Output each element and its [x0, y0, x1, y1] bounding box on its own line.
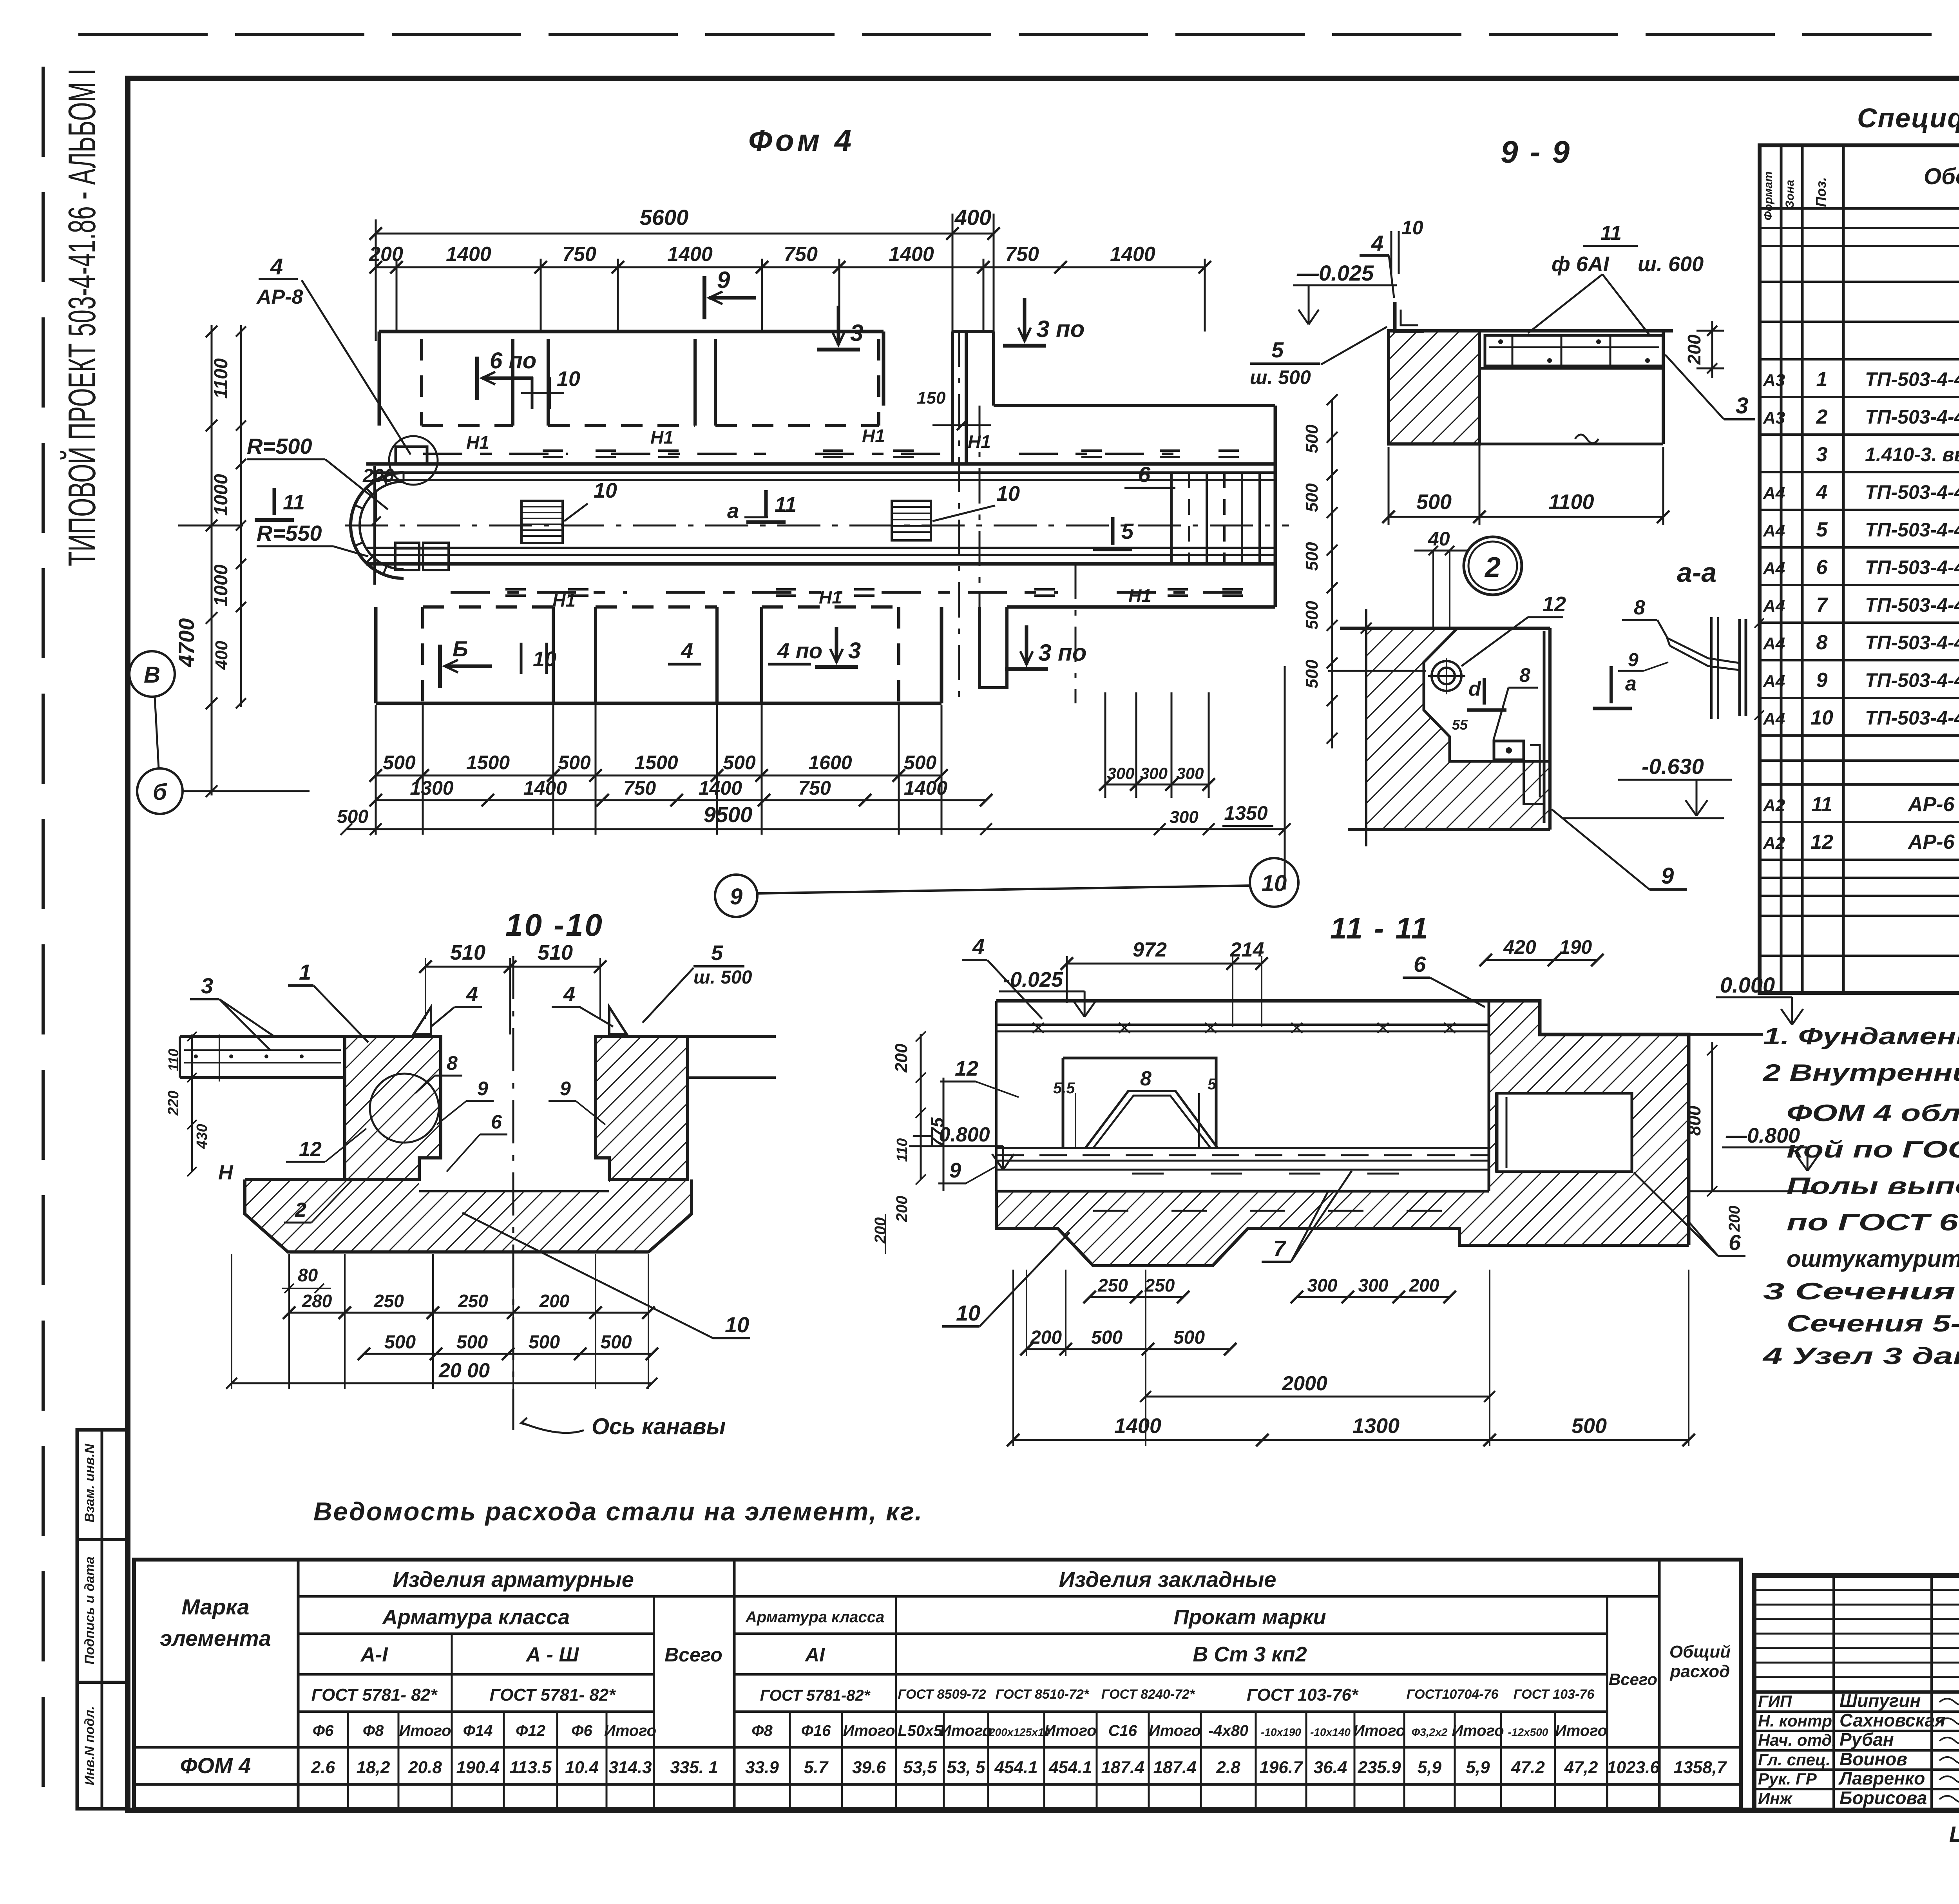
svg-text:Итого: Итого — [1452, 1722, 1504, 1739]
plan top dim 5600/400 — [376, 233, 994, 235]
svg-text:ТП-503-4-41.86: ТП-503-4-41.86 — [1865, 632, 1959, 654]
svg-text:Н1: Н1 — [1128, 585, 1152, 606]
11-11 bottom dims — [1090, 1296, 1183, 1298]
svg-text:10.4: 10.4 — [565, 1758, 599, 1777]
svg-text:ТП-503-4-41.86: ТП-503-4-41.86 — [1865, 556, 1959, 578]
svg-text:—0.800: —0.800 — [1725, 1124, 1800, 1147]
outer sheet dashed border — [78, 33, 1959, 36]
svg-text:187.4: 187.4 — [1101, 1758, 1144, 1777]
svg-text:5,9: 5,9 — [1418, 1758, 1442, 1777]
riffle end region 6 — [1170, 473, 1173, 564]
svg-text:7: 7 — [1816, 594, 1829, 616]
svg-text:R=550: R=550 — [257, 521, 322, 545]
svg-text:1400: 1400 — [889, 243, 934, 266]
svg-text:3 по: 3 по — [1038, 639, 1086, 666]
svg-text:Н1: Н1 — [819, 587, 842, 607]
svg-text:500: 500 — [1416, 490, 1452, 514]
svg-text:1: 1 — [1816, 368, 1828, 391]
svg-text:ГИП: ГИП — [1758, 1692, 1792, 1710]
svg-text:А4: А4 — [1763, 596, 1785, 616]
svg-text:Итого: Итого — [843, 1722, 895, 1739]
svg-text:1100: 1100 — [211, 358, 232, 399]
uzel 2 circle — [1464, 537, 1522, 595]
svg-text:2.6: 2.6 — [311, 1758, 335, 1777]
svg-text:1358,7: 1358,7 — [1674, 1758, 1727, 1777]
svg-text:190.4: 190.4 — [456, 1758, 499, 1777]
svg-text:200: 200 — [872, 1217, 889, 1244]
svg-text:12: 12 — [1811, 831, 1833, 853]
svg-text:С16: С16 — [1108, 1722, 1137, 1739]
svg-text:500: 500 — [904, 752, 937, 774]
svg-text:оштукатурить.: оштукатурить. — [1787, 1246, 1959, 1272]
svg-text:9: 9 — [477, 1078, 488, 1100]
svg-text:300: 300 — [1307, 1275, 1338, 1295]
svg-text:500: 500 — [600, 1332, 632, 1353]
left stamp boxes — [77, 1430, 128, 1809]
svg-text:4: 4 — [466, 982, 478, 1006]
svg-text:80: 80 — [298, 1265, 318, 1285]
svg-text:1400: 1400 — [1114, 1414, 1161, 1438]
svg-text:ТП-503-4-41.86: ТП-503-4-41.86 — [1865, 707, 1959, 729]
svg-text:3: 3 — [850, 320, 863, 346]
500 ladder — [1331, 400, 1333, 748]
svg-text:10: 10 — [594, 479, 617, 502]
svg-text:10: 10 — [996, 482, 1020, 505]
svg-text:Всего: Всего — [664, 1644, 722, 1666]
svg-text:200: 200 — [539, 1291, 570, 1311]
11-11 body — [996, 999, 1489, 1003]
svg-text:2.8: 2.8 — [1216, 1758, 1240, 1777]
svg-text:2: 2 — [295, 1199, 306, 1221]
title block main — [1754, 1576, 1959, 1810]
uzel 2 detail — [1340, 627, 1550, 630]
svg-text:200: 200 — [369, 243, 403, 266]
svg-text:196.7: 196.7 — [1259, 1758, 1304, 1777]
svg-text:972: 972 — [1133, 938, 1167, 961]
svg-text:10: 10 — [1262, 871, 1287, 896]
svg-text:9: 9 — [717, 267, 730, 293]
svg-text:10 -10: 10 -10 — [505, 908, 604, 942]
svg-text:Изделия закладные: Изделия закладные — [1059, 1567, 1276, 1592]
svg-text:ТП-503-4-41.86: ТП-503-4-41.86 — [1865, 519, 1959, 541]
vertical dim chain left — [240, 325, 242, 707]
svg-text:454.1: 454.1 — [994, 1758, 1037, 1777]
svg-text:А3: А3 — [1763, 408, 1785, 428]
svg-text:А4: А4 — [1763, 484, 1785, 503]
svg-text:5: 5 — [711, 941, 723, 965]
10-10 right wall — [596, 1036, 688, 1179]
svg-text:5600: 5600 — [640, 205, 689, 230]
svg-text:500: 500 — [1302, 424, 1322, 453]
svg-text:10: 10 — [1401, 217, 1423, 239]
vertical dim 4700 — [211, 325, 213, 795]
svg-text:кой по ГОСТ 6141-82: кой по ГОСТ 6141-82 на цементном раствор… — [1787, 1136, 1959, 1163]
svg-text:5: 5 — [1271, 337, 1284, 362]
svg-text:Шипугин: Шипугин — [1840, 1690, 1921, 1711]
svg-text:190: 190 — [1559, 936, 1592, 958]
svg-text:5.7: 5.7 — [804, 1758, 829, 1777]
svg-text:ГОСТ10704-76: ГОСТ10704-76 — [1407, 1687, 1499, 1702]
svg-text:510: 510 — [450, 941, 485, 964]
svg-text:Итого: Итого — [604, 1722, 656, 1739]
svg-text:200: 200 — [1726, 1206, 1743, 1232]
10-10 callout circle — [370, 1074, 439, 1143]
svg-text:4: 4 — [681, 638, 693, 663]
svg-text:200: 200 — [362, 466, 394, 486]
svg-text:Нач. отд.: Нач. отд. — [1758, 1731, 1836, 1749]
svg-text:1023.6: 1023.6 — [1607, 1758, 1660, 1777]
svg-text:1400: 1400 — [904, 777, 947, 799]
svg-text:ш. 500: ш. 500 — [693, 967, 752, 988]
svg-text:39.6: 39.6 — [852, 1758, 886, 1777]
svg-text:Итого: Итого — [1555, 1722, 1607, 1739]
svg-text:150: 150 — [917, 388, 946, 408]
left rounded end arcs — [351, 473, 404, 578]
top right stub 400 — [952, 332, 1275, 464]
svg-text:6: 6 — [491, 1111, 502, 1133]
svg-text:Спецификация элементов: Спецификация элементов — [1857, 103, 1959, 133]
svg-text:9500: 9500 — [704, 802, 753, 827]
svg-text:6: 6 — [1816, 556, 1828, 579]
svg-text:ТП-503-4-41.86: ТП-503-4-41.86 — [1865, 669, 1959, 691]
svg-text:Прокат марки: Прокат марки — [1173, 1605, 1326, 1629]
svg-text:500: 500 — [1302, 542, 1322, 571]
svg-text:0.000: 0.000 — [1720, 973, 1775, 997]
svg-text:11 - 11: 11 - 11 — [1330, 912, 1429, 945]
svg-text:500: 500 — [456, 1332, 488, 1353]
svg-text:1.410-3. вып.1: 1.410-3. вып.1 — [1865, 444, 1959, 466]
svg-text:Итого: Итого — [1353, 1722, 1405, 1739]
svg-text:В: В — [144, 662, 160, 688]
svg-text:Рубан: Рубан — [1840, 1729, 1894, 1750]
svg-text:Полы выполнить из к: Полы выполнить из керамической плитки, — [1787, 1173, 1959, 1199]
svg-text:314.3: 314.3 — [608, 1758, 652, 1777]
svg-text:250: 250 — [458, 1291, 488, 1311]
svg-text:АI: АI — [804, 1644, 825, 1666]
svg-text:420: 420 — [1503, 936, 1536, 958]
svg-text:20 00: 20 00 — [438, 1359, 490, 1382]
svg-text:ТП-503-4-41.86: ТП-503-4-41.86 — [1865, 481, 1959, 503]
svg-text:500: 500 — [384, 1332, 416, 1353]
10-10 left slab — [180, 1035, 345, 1038]
svg-text:250: 250 — [373, 1291, 404, 1311]
svg-text:510: 510 — [538, 941, 573, 964]
svg-text:ТП-503-4-41.86: ТП-503-4-41.86 — [1865, 368, 1959, 390]
rebar marks row 11-11 — [1093, 1210, 1128, 1212]
svg-text:— 0.800: — 0.800 — [913, 1123, 990, 1146]
svg-text:1000: 1000 — [211, 564, 232, 606]
svg-text:3: 3 — [201, 973, 213, 998]
svg-text:Подпись и дата: Подпись и дата — [82, 1556, 97, 1665]
svg-text:9: 9 — [1628, 650, 1639, 670]
svg-text:11: 11 — [1601, 222, 1622, 245]
channel outer/walls — [366, 462, 1275, 466]
svg-text:20.8: 20.8 — [408, 1758, 442, 1777]
svg-text:1350: 1350 — [1224, 802, 1267, 824]
svg-text:d: d — [1468, 678, 1481, 700]
svg-text:7: 7 — [1273, 1236, 1287, 1261]
svg-text:454.1: 454.1 — [1048, 1758, 1092, 1777]
10-10 top dims — [425, 966, 600, 968]
svg-text:А2: А2 — [1763, 796, 1785, 815]
svg-text:АР-8: АР-8 — [256, 286, 303, 308]
svg-text:500: 500 — [1302, 601, 1322, 630]
10-10 base slab — [245, 1179, 692, 1252]
embedded plate marks — [543, 449, 563, 452]
svg-text:5: 5 — [1121, 519, 1134, 543]
11-11 top dims — [1067, 963, 1262, 965]
svg-text:а-а: а-а — [1677, 557, 1716, 588]
svg-text:300: 300 — [1107, 764, 1134, 783]
svg-text:1400: 1400 — [446, 243, 491, 266]
svg-text:3: 3 — [1736, 393, 1748, 418]
svg-text:ГОСТ 8509-72: ГОСТ 8509-72 — [898, 1687, 986, 1702]
lower block — [376, 702, 941, 705]
svg-text:ГОСТ 103-76*: ГОСТ 103-76* — [1247, 1685, 1359, 1705]
svg-text:Ось канавы: Ось канавы — [592, 1414, 726, 1439]
upper dashed band — [420, 339, 423, 426]
svg-text:ТИПОВОЙ ПРОЕКТ 503-4-41.86 -: ТИПОВОЙ ПРОЕКТ 503-4-41.86 - АЛЬБОМ I — [60, 69, 103, 566]
svg-text:Ф6: Ф6 — [313, 1722, 334, 1739]
svg-text:Обозначение: Обозначение — [1924, 164, 1959, 189]
hatch pad left on axis — [521, 501, 563, 543]
svg-text:300: 300 — [1176, 764, 1204, 783]
svg-text:Арматура класса: Арматура класса — [382, 1605, 570, 1629]
spec table grid — [1760, 145, 1959, 993]
svg-text:Общий: Общий — [1669, 1642, 1731, 1661]
svg-text:500: 500 — [1302, 483, 1322, 512]
svg-text:9: 9 — [560, 1078, 571, 1100]
svg-text:500: 500 — [1572, 1414, 1607, 1438]
svg-text:Фом 4: Фом 4 — [748, 123, 855, 158]
svg-text:Ведомость расхода стали: Ведомость расхода стали на элемент, кг. — [313, 1497, 923, 1526]
10-10 left wall — [345, 1036, 441, 1179]
svg-text:1500: 1500 — [466, 752, 510, 774]
svg-text:Итого: Итого — [1149, 1722, 1201, 1739]
svg-text:Борисова: Борисова — [1840, 1788, 1927, 1808]
svg-text:Воинов: Воинов — [1840, 1749, 1907, 1769]
svg-text:Инж: Инж — [1758, 1789, 1793, 1808]
cut 11 left — [273, 488, 276, 515]
svg-text:Поз.: Поз. — [1813, 177, 1829, 207]
plan top dim chain — [376, 266, 1205, 268]
cut 5 right — [1111, 517, 1115, 545]
detail callout circle AP-8 — [389, 436, 438, 485]
svg-text:элемента: элемента — [160, 1626, 271, 1650]
svg-text:Ф3,2х2: Ф3,2х2 — [1412, 1726, 1448, 1738]
svg-text:Всего: Всего — [1609, 1670, 1657, 1688]
H1 dashed row upper — [423, 453, 568, 455]
axis line into detail — [1328, 670, 1426, 672]
svg-text:2: 2 — [1816, 406, 1828, 428]
svg-text:47,2: 47,2 — [1564, 1758, 1598, 1777]
svg-text:R=500: R=500 — [247, 434, 312, 458]
11-11 mid lines — [996, 1147, 1489, 1149]
svg-text:3 Сечения 3-3 ÷ 4-4: 3 Сечения 3-3 ÷ 4-4 даны на листе АР-4. — [1763, 1278, 1959, 1304]
svg-text:—0.025: —0.025 — [1296, 261, 1374, 285]
svg-text:А4: А4 — [1763, 634, 1785, 653]
svg-text:335. 1: 335. 1 — [670, 1758, 718, 1777]
svg-text:280: 280 — [302, 1291, 332, 1311]
svg-text:750: 750 — [1005, 243, 1039, 266]
9-9 slab — [1389, 329, 1673, 333]
svg-text:11: 11 — [775, 493, 797, 516]
lower H1 dashed row — [451, 591, 627, 594]
svg-text:430: 430 — [194, 1124, 210, 1149]
svg-text:8: 8 — [447, 1052, 458, 1074]
svg-text:Ф8: Ф8 — [751, 1722, 773, 1739]
svg-text:1300: 1300 — [1352, 1414, 1400, 1438]
svg-text:9: 9 — [1816, 669, 1828, 692]
svg-text:235.9: 235.9 — [1357, 1758, 1401, 1777]
svg-text:12: 12 — [299, 1138, 322, 1161]
svg-text:3: 3 — [1816, 443, 1828, 466]
svg-text:-4х80: -4х80 — [1208, 1722, 1248, 1739]
svg-text:2 Внутренние поверхност: 2 Внутренние поверхности стен фундамента — [1763, 1060, 1959, 1086]
svg-text:1: 1 — [299, 960, 311, 984]
svg-text:-10х190: -10х190 — [1261, 1726, 1301, 1738]
svg-text:53,5: 53,5 — [903, 1758, 937, 1777]
svg-text:500: 500 — [337, 806, 368, 827]
svg-text:4: 4 — [1816, 481, 1828, 504]
10-10 gussets — [413, 1007, 431, 1034]
svg-text:а: а — [1625, 672, 1637, 695]
svg-text:ГОСТ 5781-82*: ГОСТ 5781-82* — [760, 1687, 871, 1704]
lower cut labels — [445, 665, 492, 668]
svg-text:8: 8 — [1634, 596, 1645, 619]
svg-text:110: 110 — [165, 1049, 181, 1071]
hatch pad right on axis — [892, 501, 931, 540]
svg-text:Итого: Итого — [1044, 1722, 1096, 1739]
svg-text:6: 6 — [1729, 1230, 1741, 1255]
svg-text:5: 5 — [1816, 518, 1828, 541]
svg-text:800: 800 — [1684, 1105, 1704, 1136]
svg-text:Ф8: Ф8 — [363, 1722, 384, 1739]
section cut marks upper — [482, 377, 533, 380]
svg-text:Н1: Н1 — [552, 590, 576, 611]
svg-text:А3: А3 — [1763, 371, 1785, 390]
9-9 corner angle — [1395, 302, 1424, 331]
svg-text:Н1: Н1 — [466, 432, 489, 453]
svg-text:1400: 1400 — [523, 777, 567, 799]
svg-text:750: 750 — [784, 243, 818, 266]
svg-text:В Ст 3 кп2: В Ст 3 кп2 — [1193, 1643, 1307, 1666]
svg-text:Н1: Н1 — [650, 427, 674, 447]
svg-text:ФОМ 4 облицевать бел: ФОМ 4 облицевать белой керамической плит… — [1787, 1100, 1959, 1126]
svg-text:А4: А4 — [1763, 672, 1785, 691]
svg-text:10: 10 — [956, 1301, 980, 1325]
svg-text:АР-6: АР-6 — [1907, 793, 1955, 816]
300 group verticals — [1104, 692, 1106, 798]
svg-text:33.9: 33.9 — [745, 1758, 779, 1777]
svg-text:9 - 9: 9 - 9 — [1501, 134, 1571, 169]
svg-text:187.4: 187.4 — [1153, 1758, 1196, 1777]
svg-text:1500: 1500 — [634, 752, 678, 774]
svg-text:А4: А4 — [1763, 709, 1785, 728]
svg-text:1100: 1100 — [1548, 490, 1594, 514]
svg-text:300: 300 — [1170, 808, 1199, 827]
svg-text:Взам. инв.N: Взам. инв.N — [82, 1443, 97, 1522]
svg-text:Сечения 5-5 , 6-6 даны: Сечения 5-5 , 6-6 даны на листе АР-5. — [1787, 1310, 1959, 1337]
svg-text:-10х140: -10х140 — [1310, 1726, 1351, 1738]
9-9 hatched block — [1389, 331, 1479, 444]
svg-text:1400: 1400 — [667, 243, 713, 266]
svg-text:113.5: 113.5 — [510, 1758, 552, 1777]
svg-text:200: 200 — [1409, 1275, 1439, 1295]
svg-text:б: б — [153, 779, 168, 805]
svg-text:А4: А4 — [1763, 521, 1785, 540]
svg-text:Сахновская: Сахновская — [1840, 1710, 1945, 1730]
svg-text:300: 300 — [1358, 1275, 1389, 1295]
svg-text:ш. 600: ш. 600 — [1638, 252, 1704, 276]
svg-text:Лавренко: Лавренко — [1838, 1768, 1925, 1788]
svg-text:Б: Б — [453, 636, 468, 661]
svg-text:ФОМ 4: ФОМ 4 — [180, 1753, 251, 1778]
10-10 right side dims — [920, 1034, 922, 1179]
svg-text:8: 8 — [1140, 1067, 1152, 1090]
dash-dot verticals right part — [958, 332, 960, 703]
svg-text:500: 500 — [1302, 659, 1322, 688]
svg-text:1600: 1600 — [808, 752, 852, 774]
pipe circle 12 — [1432, 661, 1461, 691]
svg-text:1400: 1400 — [1110, 243, 1155, 266]
bottom dim chains — [375, 705, 377, 835]
9-9 dim 500/1100 — [1389, 516, 1663, 518]
11-11 bottom slab — [996, 1191, 1689, 1266]
svg-text:10: 10 — [533, 647, 556, 671]
svg-text:500: 500 — [723, 752, 756, 774]
svg-text:Гл. спец.: Гл. спец. — [1758, 1750, 1830, 1769]
svg-text:4700: 4700 — [174, 618, 199, 668]
svg-text:220: 220 — [165, 1091, 182, 1116]
svg-text:9: 9 — [949, 1159, 961, 1182]
svg-text:ГОСТ 8510-72*: ГОСТ 8510-72* — [996, 1687, 1090, 1702]
svg-text:9: 9 — [1661, 863, 1674, 889]
svg-text:ГОСТ 5781- 82*: ГОСТ 5781- 82* — [311, 1685, 438, 1705]
channel axis — [345, 525, 1289, 527]
svg-text:L50х5: L50х5 — [898, 1722, 942, 1739]
svg-text:4: 4 — [972, 934, 985, 959]
svg-text:ГОСТ 8240-72*: ГОСТ 8240-72* — [1101, 1687, 1195, 1702]
svg-text:8: 8 — [1519, 664, 1530, 686]
svg-text:10: 10 — [1811, 707, 1833, 729]
right strip edges — [1274, 406, 1277, 607]
svg-text:10: 10 — [557, 367, 580, 391]
svg-text:300: 300 — [1140, 764, 1168, 783]
svg-text:10: 10 — [725, 1312, 749, 1337]
svg-text:250: 250 — [1097, 1275, 1128, 1295]
svg-text:Изделия арматурные: Изделия арматурные — [393, 1567, 634, 1592]
svg-text:200: 200 — [1030, 1327, 1062, 1348]
svg-text:6: 6 — [1138, 462, 1151, 487]
svg-text:А4: А4 — [1763, 559, 1785, 578]
svg-text:750: 750 — [623, 777, 656, 799]
svg-text:214: 214 — [1230, 938, 1264, 961]
svg-text:АР-6: АР-6 — [1907, 831, 1955, 853]
svg-text:5,5: 5,5 — [1053, 1080, 1075, 1097]
svg-text:200: 200 — [1684, 334, 1704, 365]
svg-text:200: 200 — [892, 1043, 911, 1073]
svg-text:6 по: 6 по — [490, 348, 536, 373]
9-9 dim 200 — [1696, 330, 1724, 332]
svg-text:250: 250 — [1144, 1275, 1175, 1295]
svg-text:-0.630: -0.630 — [1642, 754, 1704, 779]
svg-text:12: 12 — [955, 1057, 978, 1080]
svg-text:200: 200 — [893, 1196, 911, 1223]
svg-text:Инв.N подл.: Инв.N подл. — [82, 1706, 97, 1785]
svg-text:Ф6: Ф6 — [571, 1722, 592, 1739]
small pads below axis left — [395, 543, 419, 570]
